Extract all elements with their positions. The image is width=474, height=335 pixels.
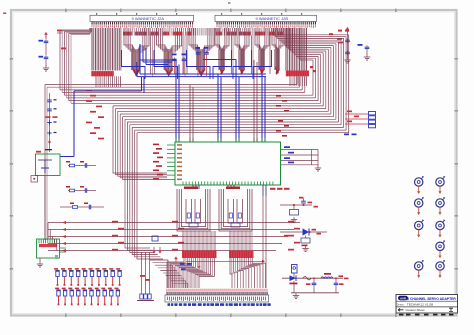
ground below R10 — [302, 246, 308, 252]
U1 top edge pin stubs — [176, 138, 265, 142]
title block frame — [396, 295, 458, 314]
diode D1 on rail — [290, 275, 298, 284]
capacitor C1 — [44, 35, 49, 44]
capacitor trio C20 C21 C22 — [137, 294, 154, 301]
motor symbol M2 — [415, 197, 424, 215]
ground below R9 — [291, 217, 297, 223]
U1 left pin stubs — [167, 145, 175, 179]
logo AVR — [398, 296, 408, 301]
staircase wires into connector left — [150, 260, 188, 288]
net label ticks fan right — [276, 95, 289, 137]
inductor L1 — [321, 277, 333, 278]
routing maze block M1 — [177, 187, 210, 232]
U1 bottom edge pin stubs — [183, 182, 273, 186]
fuse F1 — [303, 277, 311, 280]
wire stack above Q1 — [49, 93, 51, 152]
blue verticals to U1 pins — [176, 60, 265, 142]
svg-text:9 WANNETIC J2B: 9 WANNETIC J2B — [255, 16, 288, 21]
motor symbol M6 — [436, 197, 445, 215]
blue bus verticals left — [137, 60, 144, 93]
wire bus from J2 right pins — [286, 28, 306, 71]
motor symbol M8 — [436, 241, 445, 259]
down arrow flags mid bottom — [153, 247, 162, 254]
ground below C14 — [364, 55, 370, 61]
svg-text:2 CHANNEL SERVO ADAPTER: 2 CHANNEL SERVO ADAPTER — [407, 297, 456, 301]
blue corner J2 side — [203, 60, 236, 75]
capacitor C18 — [334, 278, 344, 286]
wire bus from J1 left pins — [92, 28, 121, 71]
wire net R7 C7 — [60, 203, 104, 208]
net dashes rail right end — [339, 275, 349, 279]
connector J1 header bar — [90, 13, 194, 21]
routing block under J2 section c — [255, 28, 269, 75]
routing block under J2 section d — [272, 28, 283, 75]
left wire bundle B2 to U1 and lower fan — [113, 106, 167, 259]
ground below Q2 — [37, 258, 43, 267]
blue staple wires J1 groups — [122, 50, 211, 79]
U1 bottom pin stubs — [193, 185, 266, 196]
routing block under J1 section b — [157, 28, 182, 76]
capacitor C6 — [85, 188, 86, 193]
resistor row RN1 — [54, 268, 122, 286]
motor symbol M3 — [415, 220, 424, 238]
net label ticks fan left — [86, 90, 104, 140]
capacitor C7 — [89, 205, 90, 210]
IC U1 main controller box — [175, 142, 281, 185]
green flag left of RN1 — [55, 256, 58, 258]
sheet nav arrows — [398, 308, 453, 311]
net label blobs under J1 — [123, 32, 191, 36]
label L1 — [324, 273, 331, 275]
staircase bus bar2 to J3 — [230, 258, 266, 288]
motor symbol M9 — [436, 260, 445, 278]
resistor R10 below Q3 — [301, 236, 310, 247]
capacitor C13 — [345, 50, 350, 55]
U1 inside pin names — [177, 144, 182, 180]
label Pilot Tecla — [270, 188, 290, 190]
resistor R9 below row 1 — [290, 205, 299, 215]
connector J3 pin numbers in bar — [167, 297, 266, 301]
net labels above caps — [172, 47, 209, 55]
wire bus maze M1 to pin bar — [183, 231, 215, 251]
wire net R5 C5 — [66, 161, 96, 166]
net flag small near J3 — [180, 263, 192, 270]
capacitor C12 — [345, 38, 350, 43]
svg-text:Custom Sheet: Custom Sheet — [405, 308, 424, 312]
net labels row 2 — [284, 229, 321, 237]
wire pair right of mazes — [263, 196, 266, 232]
capacitor C4 on stack — [47, 108, 56, 111]
connector J3 pins — [167, 289, 268, 295]
net label ticks lower fan — [112, 221, 300, 251]
resistor R7 — [71, 206, 79, 209]
resistor R6 — [68, 189, 76, 192]
routing block under J1 section a — [124, 28, 149, 76]
ground below C2 — [43, 61, 49, 72]
net label near C12 — [337, 38, 343, 43]
wire pair right bus down — [263, 232, 266, 288]
attachment box below Q1 — [31, 176, 38, 183]
connector J3 label text — [168, 303, 271, 306]
pin labels top right corner bends — [329, 30, 349, 36]
wire VCC filter — [347, 31, 349, 58]
pin cluster bar bottom left group — [182, 251, 217, 259]
staircase bus bar1 to J3 — [167, 258, 214, 288]
capacitor C2 — [44, 45, 49, 61]
transistor Q3 — [303, 228, 310, 235]
Q2 right pin stubs — [60, 248, 67, 252]
routing block under J2 section a — [215, 28, 229, 75]
wire net R6 C6 — [66, 186, 96, 191]
left vertical wire pair to lower section — [45, 85, 47, 241]
U1 right pin wires — [281, 150, 318, 167]
connector P2 power input — [292, 265, 298, 274]
U1 top maroon pin pairs — [190, 60, 257, 142]
PSU ground rail — [291, 281, 339, 299]
connector CN2 blue 4pin — [369, 112, 376, 128]
wire net driver row 2 — [280, 231, 327, 233]
blue wire corners under J1 — [140, 44, 176, 65]
motor symbol M7 — [436, 220, 445, 238]
blue bus horizontals — [137, 74, 266, 77]
capacitor C14 — [365, 45, 370, 55]
labels capacitor trio — [140, 275, 150, 281]
transistor group box Q2 — [37, 239, 60, 258]
svg-text:Drawn:: Drawn: — [397, 303, 405, 306]
junction dot on stack — [48, 141, 50, 143]
capacitor C15 on row 1 — [301, 199, 306, 204]
red net label on stack — [46, 116, 58, 118]
capacitor C10 — [196, 51, 201, 76]
wire bus continuation below bar — [96, 76, 121, 87]
title block bottom marks — [399, 314, 454, 316]
wire PSU rail — [282, 273, 343, 278]
motor symbol M1 — [415, 176, 424, 194]
ground below C13 — [344, 58, 350, 64]
between-group wires under J2 — [232, 36, 271, 77]
wire bus continuation below J2 bar — [290, 76, 306, 86]
pin stub band under J1 — [124, 28, 212, 36]
bus bend bundle J1 left pins — [60, 28, 92, 103]
lower horizontal wire fan — [48, 223, 300, 251]
capacitor C5 — [85, 163, 86, 168]
net label C2 — [39, 56, 44, 58]
pin stub band under J2 — [216, 28, 284, 36]
motor symbol M4 — [415, 260, 424, 278]
routing maze block M2 — [219, 187, 252, 232]
net labels row 1 — [299, 197, 318, 208]
pin number bar under J1 left bus — [91, 71, 113, 76]
horizontal wire fan bus — [45, 28, 349, 133]
wire below Q1 — [44, 176, 46, 241]
wire stub left of J1 — [57, 30, 62, 33]
wires to CN2 — [345, 111, 368, 125]
routing block under J1 section c — [189, 28, 214, 76]
pin cluster bar bottom right group — [229, 251, 254, 259]
svg-text:AVR: AVR — [400, 296, 407, 300]
resistor row RN2 — [55, 288, 120, 306]
corner mark — [3, 2, 230, 14]
wires to capacitor trio — [142, 252, 150, 294]
pin number bar under J2 right bus — [286, 71, 309, 77]
Q2 top pin stubs — [39, 239, 57, 247]
capacitor C8 — [172, 57, 177, 74]
tick above Q1 box — [45, 149, 52, 150]
net label on bend bundle — [61, 48, 66, 50]
U1 left pin labels — [153, 144, 163, 180]
red net arrow wire above J3 — [186, 260, 265, 263]
junction dots PSU — [313, 277, 337, 279]
power arrow near J3 — [174, 256, 178, 262]
connector J3 bottom bar — [165, 295, 269, 302]
ground right of U1 — [315, 166, 321, 172]
down arrow flag near J3 — [198, 262, 201, 269]
resistor R5 — [68, 164, 76, 167]
power arrow VCC near J2 — [346, 27, 350, 33]
net label near C14 — [358, 44, 363, 46]
connector J2 header bar — [215, 13, 317, 21]
U1 right pin labels — [284, 146, 294, 163]
net label C1 — [39, 40, 44, 42]
arrow heads lower fan — [62, 221, 66, 252]
motor symbol M5 — [436, 176, 445, 194]
power arrow P1 top left — [44, 32, 48, 38]
svg-text:9 WANNETIC J2A: 9 WANNETIC J2A — [131, 16, 164, 21]
capacitor C9 — [182, 57, 187, 74]
net label below CN2 — [344, 134, 357, 136]
transistor group box Q1 — [36, 151, 61, 176]
wire net driver row 1 — [280, 204, 312, 206]
wire bus maze M2 to pin bar — [230, 231, 252, 251]
blue staple wires J2 groups — [213, 50, 272, 79]
component IC small — [152, 236, 158, 241]
blue wire to Q1 group — [60, 91, 142, 157]
svg-text:TECHNIK12 V1.0B: TECHNIK12 V1.0B — [407, 303, 433, 307]
small red label right of J2 bar — [310, 66, 316, 72]
between-group wires under J1 — [151, 36, 188, 77]
diode D4 on stack — [47, 131, 56, 135]
diode D3 on stack — [47, 120, 56, 124]
net label blobs under J2 — [216, 32, 283, 36]
capacitor C11 — [204, 51, 209, 76]
capacitor C17 — [306, 278, 316, 286]
routing block under J2 section b — [235, 28, 249, 75]
capacitor C3 on stack — [47, 99, 56, 102]
